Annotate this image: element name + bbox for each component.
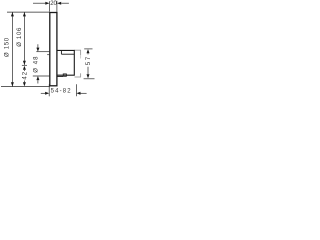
svg-text:42: 42: [22, 71, 28, 80]
svg-text:20: 20: [50, 1, 57, 7]
svg-text:Ø 48: Ø 48: [34, 55, 40, 72]
svg-text:54-82: 54-82: [51, 89, 72, 95]
svg-text:57: 57: [85, 55, 92, 65]
svg-text:Ø 150: Ø 150: [4, 37, 10, 57]
svg-text:Ø 106: Ø 106: [17, 27, 23, 47]
